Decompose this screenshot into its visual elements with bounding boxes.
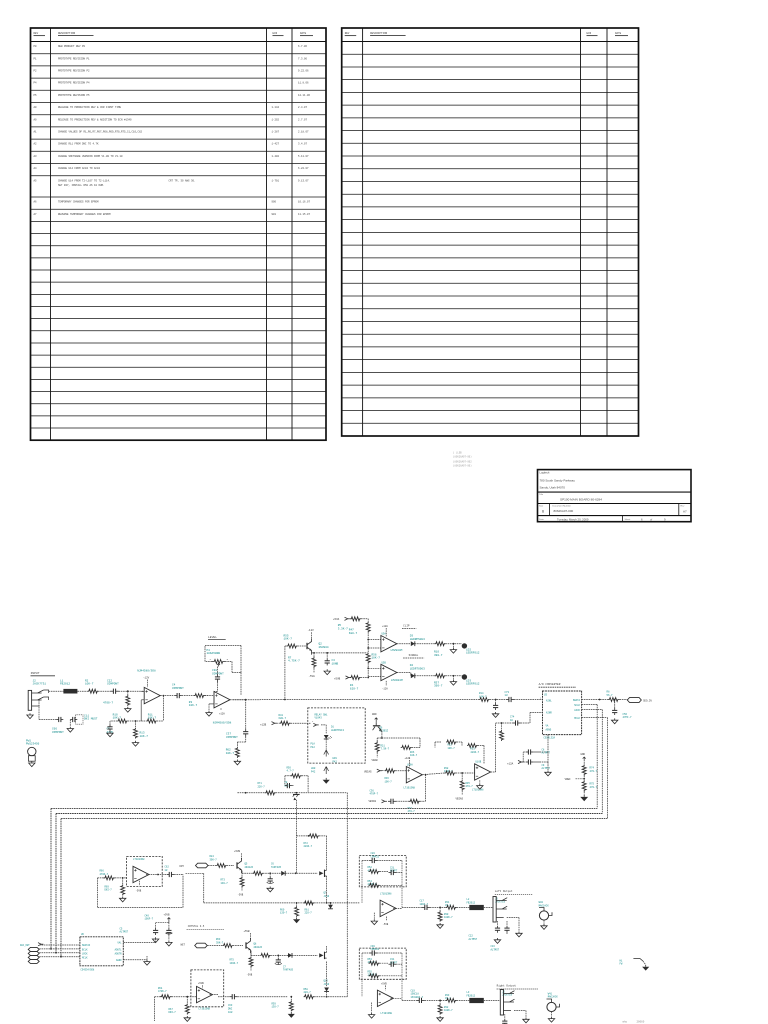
op-amp U9B LT1013 bbox=[377, 990, 393, 1006]
svg-text:AINR: AINR bbox=[546, 712, 552, 715]
svg-text:GND: GND bbox=[372, 713, 377, 716]
svg-text:DATE: DATE bbox=[300, 32, 307, 35]
svg-text:+5VB: +5VB bbox=[244, 930, 251, 933]
svg-text:20060: 20060 bbox=[637, 1021, 645, 1024]
svg-text:620-7: 620-7 bbox=[350, 687, 359, 690]
wire U9A output row bbox=[393, 907, 402, 909]
svg-text:LT1013N8: LT1013N8 bbox=[133, 858, 145, 861]
svg-text:A6: A6 bbox=[34, 201, 38, 204]
svg-text:10UF-7: 10UF-7 bbox=[145, 918, 154, 921]
svg-text:VAL: VAL bbox=[117, 941, 122, 944]
svg-text:ECN: ECN bbox=[273, 32, 278, 35]
svg-text:REV: REV bbox=[345, 32, 350, 35]
ground under R75 bbox=[583, 792, 585, 795]
svg-text:CHANGE R11 FROM DNI TO 4.7K: CHANGE R11 FROM DNI TO 4.7K bbox=[58, 143, 99, 146]
svg-text:CHANGE SOFTWARE VERSION FROM V: CHANGE SOFTWARE VERSION FROM V1.00 TO V1… bbox=[58, 155, 123, 158]
clamp diode D7 bbox=[330, 903, 332, 905]
svg-text:1-202: 1-202 bbox=[272, 118, 280, 121]
svg-text:CS53L32A: CS53L32A bbox=[544, 737, 556, 740]
svg-text:JACK7731: JACK7731 bbox=[33, 683, 47, 686]
svg-text:MAGJACK: MAGJACK bbox=[548, 996, 559, 999]
svg-text:9.22.06: 9.22.06 bbox=[298, 70, 309, 73]
svg-text:A7: A7 bbox=[683, 510, 687, 514]
svg-text:MCLK: MCLK bbox=[82, 957, 88, 960]
svg-text:+5VB: +5VB bbox=[234, 850, 241, 853]
svg-text:+5VB: +5VB bbox=[198, 982, 204, 985]
ground under PW1 bbox=[29, 761, 35, 766]
svg-text:10K-7: 10K-7 bbox=[226, 752, 235, 755]
ground under R13 bbox=[132, 741, 138, 746]
svg-text:SIGNAL: SIGNAL bbox=[409, 654, 419, 657]
op-amp U8A bbox=[197, 986, 213, 1002]
ground under C56 bbox=[612, 718, 618, 723]
svg-text:PW123456: PW123456 bbox=[26, 743, 40, 746]
svg-text:47PF-7: 47PF-7 bbox=[623, 716, 633, 719]
wire SDATA to R8 bbox=[582, 699, 608, 701]
svg-text:AOUTL: AOUTL bbox=[115, 948, 123, 951]
svg-text:100K-7: 100K-7 bbox=[444, 916, 453, 919]
ground at U2B + input bbox=[209, 703, 214, 705]
svg-text:LEDRT0963: LEDRT0963 bbox=[410, 668, 425, 671]
connector pin into SW1 bbox=[313, 723, 316, 726]
svg-text:A2: A2 bbox=[34, 143, 38, 146]
DRY input terminal bbox=[196, 863, 209, 868]
svg-text:P42: P42 bbox=[333, 760, 338, 763]
svg-text:NEW PRODUCT REV P0: NEW PRODUCT REV P0 bbox=[58, 45, 86, 48]
svg-text:DATE: DATE bbox=[615, 32, 622, 35]
svg-text:901: 901 bbox=[272, 213, 277, 216]
ground under C66/C11 bbox=[69, 720, 71, 727]
svg-text:DAC_OUT: DAC_OUT bbox=[20, 944, 30, 947]
svg-text:(80626A07-00): (80626A07-00) bbox=[453, 456, 472, 459]
svg-text:80626A07-000: 80626A07-000 bbox=[554, 509, 574, 513]
svg-text:10K-7: 10K-7 bbox=[85, 683, 94, 686]
svg-text:5.11.07: 5.11.07 bbox=[298, 155, 309, 158]
svg-text:mho: mho bbox=[622, 1020, 627, 1024]
svg-text:3.3K-7: 3.3K-7 bbox=[338, 628, 348, 631]
svg-text:470-7: 470-7 bbox=[408, 810, 416, 813]
vertical to mute FET Q7 bbox=[326, 836, 328, 866]
svg-text:A0: A0 bbox=[34, 118, 38, 121]
svg-text:11.8.06: 11.8.06 bbox=[298, 82, 309, 85]
ground at U16B bbox=[479, 780, 481, 783]
ground under C6 bbox=[267, 887, 273, 892]
title block bbox=[538, 470, 692, 522]
diode D6 bbox=[288, 953, 292, 958]
svg-text:-5VB: -5VB bbox=[136, 889, 142, 892]
svg-text:P2: P2 bbox=[34, 70, 38, 73]
decoupling capacitor C9 bbox=[547, 752, 549, 762]
svg-text:of: of bbox=[650, 517, 652, 521]
ground under R67 bbox=[184, 1016, 190, 1021]
svg-text:2.18.07: 2.18.07 bbox=[298, 131, 309, 134]
svg-text:CHANGE U14 FROM AC04 TO AC04: CHANGE U14 FROM AC04 TO AC04 bbox=[58, 167, 101, 170]
revision table right bbox=[342, 28, 639, 436]
meter ladder wire bbox=[367, 632, 369, 653]
svg-text:LEDRTM113: LEDRTM113 bbox=[331, 729, 344, 732]
ground under W40 bbox=[543, 920, 545, 924]
svg-text:+12B: +12B bbox=[260, 724, 267, 727]
ground under R32 bbox=[437, 1016, 443, 1021]
svg-text:SDO_IN: SDO_IN bbox=[643, 700, 652, 703]
svg-text:AINL: AINL bbox=[546, 700, 552, 703]
svg-text:2N3904: 2N3904 bbox=[319, 646, 329, 649]
svg-text:12.11.06: 12.11.06 bbox=[298, 94, 311, 97]
right filter dashed box bbox=[359, 948, 406, 979]
LED LD3 bbox=[462, 674, 467, 679]
svg-text:P42: P42 bbox=[311, 771, 316, 774]
svg-text:A0: A0 bbox=[34, 106, 38, 109]
svg-text:P4: P4 bbox=[34, 82, 38, 85]
svg-text:LT1013N8: LT1013N8 bbox=[404, 787, 416, 790]
svg-text:1-144: 1-144 bbox=[272, 106, 280, 109]
-5VB under R73 bbox=[241, 887, 243, 891]
svg-text:680-7: 680-7 bbox=[279, 717, 287, 720]
ground under C40 bbox=[152, 937, 158, 942]
vertical from Q3 to lower row bbox=[295, 800, 297, 873]
svg-text:Date:: Date: bbox=[539, 518, 545, 521]
svg-text:130-7: 130-7 bbox=[221, 882, 229, 885]
svg-text:(80626A07-00): (80626A07-00) bbox=[453, 465, 472, 468]
svg-text:39K-7: 39K-7 bbox=[210, 858, 218, 861]
svg-text:LRCK: LRCK bbox=[574, 709, 580, 712]
svg-text:A1: A1 bbox=[34, 131, 38, 134]
op-amp U8B bbox=[133, 866, 149, 882]
svg-text:ALTMST: ALTMST bbox=[469, 938, 478, 941]
svg-text:DNI MUST: DNI MUST bbox=[84, 718, 98, 721]
svg-text:470-7: 470-7 bbox=[590, 770, 598, 773]
svg-text:10NB: 10NB bbox=[332, 662, 339, 665]
wire Q6 collector row bbox=[381, 731, 383, 738]
svg-text:LM2904M: LM2904M bbox=[391, 679, 403, 682]
-5VB at U8B bbox=[139, 881, 141, 886]
svg-text:1U: 1U bbox=[505, 694, 509, 697]
svg-text:MCLK: MCLK bbox=[574, 717, 580, 720]
svg-text:SCLK: SCLK bbox=[574, 704, 580, 707]
svg-text:NJM4580/SO8: NJM4580/SO8 bbox=[137, 669, 156, 673]
svg-text:CHANGE VALUES OF R1,R6,R7,R67,: CHANGE VALUES OF R1,R6,R7,R67,R68,R69,R7… bbox=[58, 131, 143, 134]
svg-text:LT1013N8: LT1013N8 bbox=[381, 1012, 393, 1015]
feedback loop R64 bbox=[155, 996, 161, 998]
ground at U9A bbox=[373, 913, 375, 919]
op-amp U2B NJM4580 bbox=[214, 692, 230, 708]
wet op-amp dashed box bbox=[191, 970, 224, 1007]
mute FET Q3 bbox=[276, 792, 348, 794]
svg-text:LEDRF012: LEDRF012 bbox=[466, 683, 480, 686]
LED LD2 bbox=[462, 643, 467, 648]
svg-text:VBIAS: VBIAS bbox=[456, 797, 464, 800]
ground under R69 bbox=[120, 897, 126, 902]
svg-text:10.16.07: 10.16.07 bbox=[298, 201, 311, 204]
ground under W41 bbox=[551, 1012, 553, 1017]
svg-text:220-7: 220-7 bbox=[305, 912, 313, 915]
svg-text:U16A: U16A bbox=[407, 763, 413, 766]
svg-text:U16B: U16B bbox=[476, 761, 482, 764]
ground under R60 bbox=[296, 917, 298, 919]
svg-text:WET: WET bbox=[181, 943, 186, 946]
svg-text:130-7: 130-7 bbox=[272, 1006, 280, 1009]
svg-text:REV: REV bbox=[34, 32, 39, 35]
revision table left bbox=[31, 28, 327, 440]
resistor R56b bbox=[253, 871, 263, 875]
diode D5 bbox=[281, 871, 285, 876]
ground at U9B bbox=[371, 1003, 373, 1013]
svg-text:-5VB: -5VB bbox=[247, 973, 253, 976]
ground under C41 bbox=[168, 935, 170, 940]
wire U16B output to AINR bbox=[491, 771, 496, 773]
svg-text:1-701: 1-701 bbox=[272, 179, 280, 182]
wire R55 branch down to main wire bbox=[285, 645, 287, 647]
svg-text:10K-7: 10K-7 bbox=[448, 747, 456, 750]
capacitor C23 bbox=[504, 1014, 506, 1019]
svg-text:COMPONT: COMPONT bbox=[52, 731, 64, 734]
svg-text:U3: U3 bbox=[544, 693, 548, 696]
svg-text:VREF: VREF bbox=[565, 778, 572, 781]
svg-text:10K-7: 10K-7 bbox=[372, 657, 381, 660]
wire C38/loop into op-amp U2B bbox=[232, 672, 241, 674]
ground under R30 bbox=[437, 923, 443, 928]
ground under C5 bbox=[107, 731, 113, 736]
svg-text:220K-7: 220K-7 bbox=[471, 751, 480, 754]
svg-text:LRCK: LRCK bbox=[82, 952, 88, 955]
svg-text:PROTOTYPE REVISION P2: PROTOTYPE REVISION P2 bbox=[58, 70, 90, 73]
VRAW net below R21 bbox=[376, 753, 378, 758]
svg-text:(80626A07-002: (80626A07-002 bbox=[453, 460, 472, 463]
svg-text:680-7: 680-7 bbox=[349, 632, 358, 635]
emitter row wire bbox=[250, 952, 252, 956]
svg-text:130-7: 130-7 bbox=[280, 912, 288, 915]
ground under pin H40 bbox=[325, 778, 327, 780]
svg-text:RELEASE TO PRODUCTION REV & AD: RELEASE TO PRODUCTION REV & ADDITION TO … bbox=[58, 118, 132, 121]
bus verticals to DAC bbox=[50, 808, 52, 949]
wire R2 to C22 bbox=[98, 690, 111, 692]
svg-text:11.15.07: 11.15.07 bbox=[298, 213, 311, 216]
svg-text:ALTMST: ALTMST bbox=[542, 767, 551, 770]
svg-text:56-7: 56-7 bbox=[607, 694, 614, 697]
svg-text:-5VB: -5VB bbox=[383, 923, 389, 926]
svg-text:CHANGE U14 FROM T2-L107 TO T2-: CHANGE U14 FROM T2-L107 TO T2-L114. bbox=[58, 179, 111, 182]
svg-text:-5VA: -5VA bbox=[309, 675, 316, 678]
svg-text:AGND: AGND bbox=[546, 729, 552, 732]
ground under C72 bbox=[492, 712, 498, 717]
speaker net vertical wire bbox=[346, 793, 348, 997]
left filter dashed box bbox=[359, 856, 406, 887]
wire jack to L1 bbox=[49, 690, 64, 692]
svg-text:220-7: 220-7 bbox=[304, 991, 312, 994]
svg-text:DESCRIPTION: DESCRIPTION bbox=[370, 32, 388, 35]
svg-text:39K-7: 39K-7 bbox=[216, 941, 224, 944]
ground at jack J6 bbox=[523, 1018, 529, 1023]
svg-text:Logitech: Logitech bbox=[540, 470, 550, 474]
IC U3 A/D converter box bbox=[543, 691, 582, 735]
svg-text:COMPONT: COMPONT bbox=[226, 736, 238, 739]
bus wires from U3 to verticals bbox=[582, 704, 598, 706]
digital audio bus line SCLK bbox=[51, 807, 597, 809]
dry op-amp dashed box bbox=[127, 856, 163, 886]
svg-text:GND: GND bbox=[581, 753, 586, 756]
svg-text:-5VB: -5VB bbox=[238, 893, 244, 896]
svg-text:LEDRPS083: LEDRPS083 bbox=[410, 638, 425, 641]
svg-text:DNI-7: DNI-7 bbox=[105, 889, 113, 892]
wire loop pot to op-amp bbox=[205, 661, 212, 663]
resistor R39 vertical bbox=[501, 723, 503, 730]
feedback loop wire bbox=[98, 877, 104, 879]
svg-text:22K-7: 22K-7 bbox=[258, 786, 266, 789]
svg-text:VBIAS: VBIAS bbox=[364, 770, 372, 773]
svg-text:10K-7: 10K-7 bbox=[284, 638, 293, 641]
svg-text:390-7: 390-7 bbox=[434, 654, 443, 657]
svg-text:10U: 10U bbox=[228, 1011, 233, 1014]
decoupling capacitor C8 bbox=[547, 735, 549, 752]
svg-text:10K-7: 10K-7 bbox=[140, 735, 149, 738]
svg-text:10K-7: 10K-7 bbox=[410, 754, 418, 757]
svg-text:130K-7: 130K-7 bbox=[230, 962, 239, 965]
svg-text:Sheet: Sheet bbox=[625, 518, 631, 521]
svg-text:LEDRF012: LEDRF012 bbox=[466, 652, 480, 655]
svg-text:LM2904M: LM2904M bbox=[391, 649, 403, 652]
svg-text:Left Output: Left Output bbox=[495, 889, 513, 893]
digital audio bus line LRCK bbox=[56, 813, 602, 815]
svg-text:FB2012: FB2012 bbox=[467, 994, 476, 997]
svg-text:PROTOTYPE REVISION P1: PROTOTYPE REVISION P1 bbox=[58, 57, 90, 60]
svg-text:2.7.07: 2.7.07 bbox=[298, 118, 308, 121]
svg-text:-12V: -12V bbox=[308, 629, 315, 632]
svg-text:A3: A3 bbox=[34, 155, 38, 158]
ground stub after R57 bbox=[445, 675, 462, 677]
svg-text:10K-7: 10K-7 bbox=[148, 717, 157, 720]
svg-text:CRT TP, 30 AWG 30.: CRT TP, 30 AWG 30. bbox=[169, 179, 196, 182]
svg-text:ALTMST: ALTMST bbox=[542, 752, 551, 755]
svg-text:2N4126: 2N4126 bbox=[254, 946, 263, 949]
svg-text:ECN: ECN bbox=[587, 32, 592, 35]
ground at jack J5 bbox=[516, 932, 522, 937]
svg-text:780 South Sandy Parkway: 780 South Sandy Parkway bbox=[540, 479, 576, 483]
wire U9B output row bbox=[390, 997, 402, 999]
svg-text:AGND: AGND bbox=[116, 959, 122, 962]
svg-text:4.75K-7: 4.75K-7 bbox=[288, 660, 300, 663]
svg-text:10K-7: 10K-7 bbox=[385, 781, 393, 784]
svg-text:1-287: 1-287 bbox=[272, 131, 280, 134]
svg-text:6.7.06: 6.7.06 bbox=[298, 45, 308, 48]
ground under R62 bbox=[234, 760, 240, 765]
svg-text:SET R47, INSTALL R50 AS 10 OHM: SET R47, INSTALL R50 AS 10 OHM. bbox=[58, 184, 105, 187]
VBIAS under R35 bbox=[461, 791, 463, 795]
wire C22 to op-amp bbox=[119, 690, 145, 692]
svg-text:V1043: V1043 bbox=[315, 717, 323, 720]
terminal SDO_IN bbox=[620, 699, 628, 701]
svg-text:CS4334/SO8: CS4334/SO8 bbox=[81, 968, 95, 971]
ground under C22b bbox=[494, 938, 500, 943]
svg-text:1-427: 1-427 bbox=[272, 143, 280, 146]
svg-text:FB2012: FB2012 bbox=[60, 683, 70, 686]
svg-text:DESCRIPTION: DESCRIPTION bbox=[58, 32, 76, 35]
ground under C3 bbox=[324, 669, 330, 674]
svg-text:900: 900 bbox=[272, 201, 277, 204]
wire C4 to R3b bbox=[182, 695, 194, 697]
svg-text:3.4.07: 3.4.07 bbox=[298, 143, 308, 146]
svg-text:470P-7: 470P-7 bbox=[370, 793, 379, 796]
svg-text:P0: P0 bbox=[34, 45, 38, 48]
svg-text:Right Output: Right Output bbox=[497, 984, 517, 988]
svg-text:-12V: -12V bbox=[143, 677, 150, 680]
svg-text:+5VB: +5VB bbox=[164, 913, 171, 916]
wire U8A output row bbox=[210, 994, 219, 996]
svg-text:100K-7: 100K-7 bbox=[444, 1009, 453, 1012]
svg-text:470K-7: 470K-7 bbox=[158, 990, 167, 993]
svg-text:AOUTR: AOUTR bbox=[115, 952, 123, 955]
svg-text:SDATAI: SDATAI bbox=[82, 944, 91, 947]
svg-text:NJM4580/SO8: NJM4580/SO8 bbox=[213, 721, 232, 725]
svg-text:SDATA: SDATA bbox=[573, 699, 581, 702]
svg-text:( )LSB: ( )LSB bbox=[453, 452, 462, 455]
ground under jack J2 bbox=[27, 713, 33, 718]
svg-text:DRY: DRY bbox=[180, 865, 185, 868]
-5VB under R75 bbox=[250, 967, 252, 971]
svg-text:10K-7: 10K-7 bbox=[113, 717, 122, 720]
svg-text:A5: A5 bbox=[34, 179, 38, 182]
svg-text:A7: A7 bbox=[34, 213, 38, 216]
svg-text:ALTMST: ALTMST bbox=[120, 931, 129, 934]
svg-text:PROTOTYPE REVISION P5: PROTOTYPE REVISION P5 bbox=[58, 94, 90, 97]
ground under R59 bbox=[290, 1012, 292, 1014]
svg-text:FB2012: FB2012 bbox=[467, 901, 476, 904]
svg-text:4700-7: 4700-7 bbox=[103, 701, 113, 704]
pin arrow bottom of SW1 bbox=[325, 739, 327, 750]
svg-text:DNI-7: DNI-7 bbox=[169, 1011, 177, 1014]
svg-text:6.22.07: 6.22.07 bbox=[298, 167, 309, 170]
svg-text:10K-7: 10K-7 bbox=[189, 704, 198, 707]
svg-text:-12A: -12A bbox=[382, 687, 388, 690]
svg-text:TANT4U5: TANT4U5 bbox=[271, 866, 282, 869]
svg-text:VBIAS: VBIAS bbox=[369, 800, 377, 803]
speaker jack dashed box bbox=[308, 708, 365, 763]
svg-text:LEVEL: LEVEL bbox=[208, 636, 217, 639]
svg-text:+12A: +12A bbox=[219, 713, 225, 716]
ground under R3 bbox=[125, 707, 131, 712]
svg-text:ALTMST: ALTMST bbox=[491, 948, 500, 951]
svg-text:A4: A4 bbox=[34, 167, 38, 170]
svg-text:4.7-7: 4.7-7 bbox=[287, 770, 295, 773]
wire U2B output bbox=[230, 699, 246, 701]
digital audio bus line MCLK bbox=[61, 818, 607, 820]
svg-text:CRYSTAL 3.5: CRYSTAL 3.5 bbox=[188, 925, 205, 928]
svg-text:+12A: +12A bbox=[507, 762, 514, 765]
svg-text:REVERSE TEMPORARY CHANGES FOR: REVERSE TEMPORARY CHANGES FOR EPROM bbox=[58, 213, 111, 216]
svg-text:A/D CONVERTER: A/D CONVERTER bbox=[539, 682, 561, 686]
svg-text:2.4.07: 2.4.07 bbox=[298, 106, 308, 109]
svg-text:7.5K-7: 7.5K-7 bbox=[381, 748, 390, 751]
main audio signal wire bbox=[205, 695, 208, 697]
svg-text:9.13.07: 9.13.07 bbox=[298, 179, 309, 182]
svg-text:+5VA: +5VA bbox=[333, 618, 340, 621]
svg-text:U5B: U5B bbox=[382, 662, 387, 665]
svg-text:COMPONT: COMPONT bbox=[212, 673, 224, 676]
svg-text:1-402: 1-402 bbox=[272, 155, 280, 158]
svg-text:TEMPORARY CHANGES FOR EPROM: TEMPORARY CHANGES FOR EPROM bbox=[58, 201, 99, 204]
svg-text:B: B bbox=[542, 510, 544, 514]
wire DAC VAL to caps bbox=[123, 942, 155, 944]
svg-text:VRAW: VRAW bbox=[372, 759, 379, 762]
svg-text:P42: P42 bbox=[311, 746, 316, 749]
svg-text:COMPONT: COMPONT bbox=[107, 683, 119, 686]
wire L1 to R2 bbox=[77, 690, 88, 692]
svg-text:LT1013N8: LT1013N8 bbox=[472, 789, 484, 792]
svg-text:U5A: U5A bbox=[382, 633, 387, 636]
svg-text:220K-7: 220K-7 bbox=[304, 845, 313, 848]
svg-text:390-7: 390-7 bbox=[434, 685, 443, 688]
svg-text:+12A: +12A bbox=[382, 625, 388, 628]
svg-text:MAGJACK: MAGJACK bbox=[539, 904, 550, 907]
